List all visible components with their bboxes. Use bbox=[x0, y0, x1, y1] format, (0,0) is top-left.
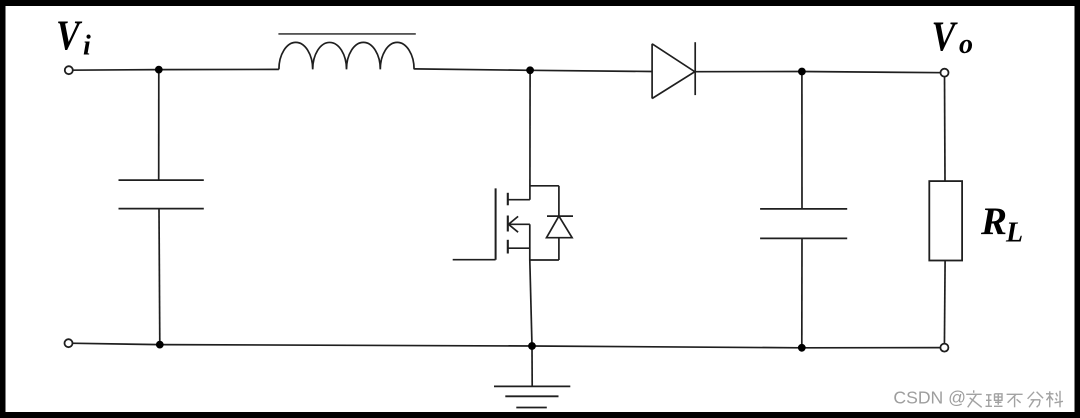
wire: output terminal down to resistor RL bbox=[944, 73, 947, 181]
channel middle segment bbox=[507, 216, 509, 232]
wire: node C to output terminal bbox=[802, 72, 945, 73]
label RL bbox=[980, 200, 1023, 249]
gate lead bbox=[453, 259, 496, 261]
channel bottom segment bbox=[507, 240, 509, 254]
ground bbox=[494, 386, 570, 407]
gate bar bbox=[495, 188, 497, 259]
body lead bbox=[509, 223, 530, 225]
node D junction dot bbox=[156, 341, 164, 349]
transistor Q1 (MOSFET with body diode) bbox=[453, 186, 573, 260]
label Vi bbox=[56, 13, 91, 62]
node C junction dot bbox=[798, 68, 806, 76]
svg-text:V: V bbox=[56, 13, 83, 59]
node B junction dot bbox=[526, 66, 534, 74]
source lead bbox=[508, 247, 530, 249]
svg-text:R: R bbox=[980, 200, 1007, 243]
capacitor C2 (output) bbox=[760, 209, 847, 239]
wire bottom: input return terminal to node D bbox=[69, 343, 160, 344]
channel top segment bbox=[507, 193, 509, 206]
body arrow bbox=[509, 216, 519, 232]
wire: resistor RL bottom to output return terminal bbox=[943, 261, 946, 348]
wire: node A down to capacitor C1 top plate bbox=[158, 70, 160, 181]
input return terminal (bottom-left, open circle) bbox=[65, 339, 73, 347]
body diode vertical top bbox=[558, 186, 560, 216]
body diode triangle bbox=[547, 216, 573, 238]
output terminal (top-right, open circle) bbox=[941, 69, 949, 77]
node E junction dot bbox=[528, 342, 536, 350]
wire: node E down to ground bbox=[531, 346, 533, 386]
wire bottom: node F to output return terminal bbox=[802, 347, 945, 349]
svg-text:i: i bbox=[83, 31, 91, 62]
body diode vertical bottom bbox=[558, 238, 560, 260]
watermark chinese characters bbox=[966, 390, 982, 407]
label Vo bbox=[932, 14, 974, 60]
wire: inductor right to node B bbox=[414, 69, 530, 70]
svg-text:o: o bbox=[959, 29, 973, 60]
capacitor C1 (input) bbox=[119, 180, 204, 209]
node F junction dot bbox=[798, 344, 806, 352]
wire bottom: node D to node E bbox=[160, 345, 532, 346]
wire: node B down to MOSFET drain bbox=[529, 70, 531, 199]
body diode branch bottom bbox=[530, 259, 559, 261]
svg-text:L: L bbox=[1005, 218, 1023, 249]
input terminal (top-left, open circle) bbox=[65, 66, 73, 74]
wire: diode cathode to node C bbox=[695, 71, 802, 73]
wire: node A to inductor left bbox=[159, 68, 279, 70]
body diode cathode bar bbox=[547, 215, 573, 217]
wire: node B to diode anode bbox=[530, 70, 652, 71]
watermark CSDN bbox=[893, 387, 966, 407]
wire top-left: input terminal to node A bbox=[69, 69, 159, 72]
svg-text:CSDN @: CSDN @ bbox=[893, 387, 966, 407]
source vertical bbox=[529, 224, 531, 260]
drain lead bbox=[508, 199, 530, 201]
resistor RL bbox=[929, 181, 962, 260]
diode D1 bbox=[652, 42, 695, 98]
body diode branch top bbox=[530, 185, 559, 187]
svg-text:V: V bbox=[932, 14, 959, 60]
wire bottom: node E to node F bbox=[532, 346, 802, 348]
node A junction dot bbox=[155, 66, 163, 74]
wire: node C down to capacitor C2 top plate bbox=[801, 72, 803, 209]
wire: capacitor C1 bottom plate to node D bbox=[158, 209, 161, 345]
inductor L1 bbox=[278, 34, 415, 70]
output return terminal (bottom-right, open circle) bbox=[940, 344, 948, 352]
wire: capacitor C2 bottom plate to node F bbox=[801, 238, 803, 347]
wire: MOSFET source down to node E bbox=[530, 260, 532, 346]
